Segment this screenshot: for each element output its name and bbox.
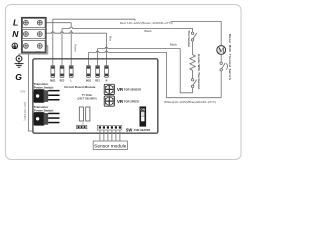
- svg-text:FOR SENSOR: FOR SENSOR: [124, 88, 141, 92]
- svg-text:N: N: [12, 29, 19, 39]
- svg-text:(24CT DB-24RV): (24CT DB-24RV): [77, 97, 96, 100]
- wire thermostat to resistor: [192, 41, 194, 55]
- motor M: [217, 46, 226, 55]
- svg-text:M: M: [218, 47, 225, 55]
- wire pill2 drop: [61, 29, 63, 66]
- wire heater switch to return: [192, 88, 194, 93]
- ground electrode: [15, 56, 24, 68]
- svg-text:(24CT DB-24RV): (24CT DB-24RV): [23, 102, 26, 121]
- svg-text:Thermostat: Thermostat: [187, 30, 191, 46]
- thermal switch motor: [220, 62, 228, 71]
- svg-text:White(110~120V)/Blue(220/240~2: White(110~120V)/Blue(220/240~277V): [164, 100, 216, 104]
- svg-text:RE2: RE2: [60, 80, 65, 83]
- svg-text:FOR SPEED: FOR SPEED: [124, 99, 139, 103]
- wire pill3 drop (brown): [70, 23, 72, 66]
- svg-text:G/Y: G/Y: [36, 50, 41, 54]
- wire pill6 drop (blue): [106, 33, 108, 65]
- wire W1 hot supply to motor: [53, 19, 221, 46]
- fuse pills row: [51, 66, 109, 78]
- PCB board outline: [33, 59, 158, 133]
- wire N stub with hops: [46, 32, 107, 33]
- fuse pill bands: [51, 66, 108, 76]
- sensor wires: [100, 130, 120, 141]
- connector J2 small: [77, 126, 87, 129]
- wire L stub: [46, 22, 71, 24]
- connector J1 sensor: [97, 125, 122, 130]
- transistor Q1: [34, 89, 60, 103]
- earth symbol label: [12, 43, 18, 49]
- svg-text:Black: Black: [170, 42, 178, 46]
- svg-text:.FOR HEATER: .FOR HEATER: [133, 129, 150, 132]
- wire W2 black heater feed: [62, 27, 193, 32]
- supply note white backing: [123, 21, 171, 25]
- svg-text:L: L: [13, 18, 18, 28]
- switch SW body: [140, 106, 147, 126]
- svg-text:Power Switch: Power Switch: [34, 109, 54, 113]
- svg-text:Power Switch: Power Switch: [34, 86, 54, 90]
- transistor label 1: [34, 82, 54, 89]
- svg-text:VR: VR: [117, 99, 124, 104]
- transistor label 2: [34, 105, 54, 112]
- svg-text:N: N: [106, 80, 108, 83]
- pill labels: [50, 80, 107, 83]
- resistor heater: [190, 55, 195, 79]
- svg-text:RE1: RE1: [95, 80, 100, 83]
- wire thermal switch down: [220, 71, 222, 98]
- svg-text:G: G: [15, 72, 22, 82]
- heater safety switch: [191, 79, 196, 88]
- svg-text:VR: VR: [117, 87, 124, 92]
- wire Wc motor return: [89, 51, 222, 98]
- svg-text:Red: 110~120V;(Brown: 220/240~: Red: 110~120V;(Brown: 220/240~277V): [120, 21, 173, 25]
- wire G/Y long run: [29, 54, 33, 131]
- svg-text:MO1: MO1: [86, 80, 92, 83]
- transistor Q2: [34, 112, 60, 126]
- svg-text:Motor With Thermal Switch: Motor With Thermal Switch: [228, 34, 232, 80]
- terminal screws: [24, 20, 43, 48]
- border frame: [6, 5, 242, 160]
- wire Wb heater return: [98, 47, 193, 93]
- wire ground jog: [19, 46, 48, 56]
- svg-text:G/Y: G/Y: [21, 89, 26, 93]
- svg-text:Brown: Brown: [74, 44, 78, 52]
- thermostat switch: [191, 32, 196, 41]
- svg-text:MO2: MO2: [50, 80, 56, 83]
- VR1 trimmer: [104, 84, 114, 94]
- svg-text:ON: ON: [141, 108, 146, 112]
- svg-text:Black: Black: [144, 29, 152, 33]
- svg-text:Blue: Blue: [108, 36, 112, 42]
- VR2 trimmer: [104, 96, 114, 106]
- wire pill1 drop: [52, 19, 54, 65]
- capacitor C1: [79, 107, 83, 121]
- svg-text:Sensor module: Sensor module: [94, 143, 127, 149]
- sensor module box: [93, 141, 127, 150]
- wire motor to thermal switch: [220, 54, 222, 62]
- svg-text:SW: SW: [126, 128, 133, 133]
- capacitor C2: [86, 107, 90, 121]
- wire pill4 drop: [88, 53, 90, 66]
- wire pill5 drop: [97, 49, 99, 66]
- terminal block: [22, 18, 46, 53]
- svg-text:Heater With Thermostat: Heater With Thermostat: [197, 54, 201, 89]
- svg-text:Circuit Board Module: Circuit Board Module: [64, 85, 96, 89]
